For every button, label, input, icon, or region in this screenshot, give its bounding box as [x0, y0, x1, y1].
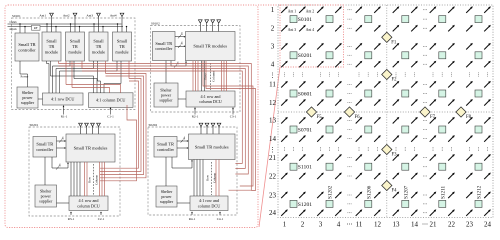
red bus line 4 [82, 71, 242, 163]
red column feed wire S0202 [218, 160, 220, 197]
svg-text:Small: Small [93, 39, 104, 44]
red dotted connector along top [258, 4, 280, 6]
svg-text:12: 12 [374, 221, 382, 229]
small TR module M2 [66, 32, 85, 61]
red column feed wire [221, 61, 223, 91]
svg-text:column DCU: column DCU [77, 203, 99, 208]
feed network node F4 [382, 180, 397, 193]
svg-text:4: 4 [181, 32, 183, 36]
antenna element 4 of S0201 [97, 123, 101, 134]
svg-text:TR: TR [96, 44, 102, 49]
bus width tick [59, 136, 64, 142]
bus width tick [56, 163, 61, 169]
R2-1 feed wire [194, 108, 196, 115]
row feed wire S0202 [202, 160, 204, 197]
C4-1 feed wire [219, 213, 221, 216]
antenna Ant4 [120, 13, 124, 32]
shelter power supplier PS2 [154, 83, 178, 107]
svg-text:S0601: S0601 [298, 91, 313, 97]
svg-text:supplier: supplier [160, 199, 174, 204]
small TR module M3 [89, 32, 108, 61]
svg-text:Ant1: Ant1 [39, 14, 46, 18]
svg-text:S0201: S0201 [30, 123, 39, 127]
svg-text:Column: Column [213, 172, 217, 183]
small TR module squares (6x6) [290, 16, 482, 208]
vertical ellipsis dot marks in omitted-row bands [284, 73, 488, 151]
feed network node F5 [306, 107, 322, 120]
small TR controller U2 [153, 32, 176, 61]
arrowhead S0202 a [187, 140, 189, 142]
red column feed wire S0201 [104, 162, 106, 196]
feed network node F8 [456, 107, 472, 120]
svg-text:Row: Row [206, 174, 210, 181]
comm input wire [8, 23, 17, 25]
svg-text:F5: F5 [317, 115, 323, 120]
arrowhead b [184, 45, 186, 47]
svg-text:TR: TR [72, 44, 78, 49]
4:1 column DCU [89, 93, 134, 108]
svg-text:Ant 1: Ant 1 [288, 10, 296, 14]
power wire S0102 [165, 61, 167, 83]
svg-text:Comm: Comm [9, 21, 16, 24]
row feed wire S0201 [79, 162, 81, 196]
C3-1 feed wire [232, 108, 234, 115]
red bus far right b [206, 61, 256, 191]
svg-text:R3-1: R3-1 [68, 217, 75, 221]
wire module M2 to row DCU [53, 61, 71, 93]
ctrl to modules wire a [175, 36, 184, 38]
wire module M1 to row DCU [47, 61, 50, 93]
power wire S0201 [44, 157, 46, 185]
svg-text:Row: Row [204, 73, 208, 80]
small TR modules block S0102 [186, 32, 236, 61]
row feed wire S0202 [196, 160, 198, 197]
red bus line 1 [59, 64, 252, 191]
ctrl loop wire [171, 61, 186, 66]
red bus line 3 [82, 69, 245, 169]
row feed wire S0202 [193, 160, 195, 197]
svg-text:4: 4 [181, 42, 183, 46]
svg-text:F6: F6 [355, 115, 361, 120]
red dotted enclosure of expanded sub-array view [5, 5, 258, 228]
red column feed wire [226, 61, 228, 91]
antenna element 4 of S0202 [217, 123, 221, 134]
antenna element 2 of S0102 [205, 20, 209, 32]
svg-text:11: 11 [269, 81, 276, 89]
svg-text:S0202: S0202 [149, 123, 158, 127]
svg-text:⋯: ⋯ [347, 222, 353, 228]
arrowhead S0201 c [67, 162, 69, 164]
svg-text:controller: controller [155, 46, 173, 51]
RF distribution box [32, 25, 41, 30]
svg-text:F3: F3 [392, 153, 398, 158]
arrowhead a [184, 36, 186, 38]
svg-text:14: 14 [411, 221, 419, 229]
svg-text:Row: Row [87, 176, 91, 183]
svg-text:1: 1 [271, 6, 275, 14]
4:1 row DCU [43, 93, 84, 105]
junction dot [102, 26, 103, 27]
red bus line 6 [100, 76, 144, 175]
red wire to column DCU b [72, 88, 110, 93]
svg-text:RF: RF [34, 26, 38, 30]
red stub module M3 [105, 61, 107, 74]
feed network node F1 [382, 32, 397, 45]
svg-text:S0101: S0101 [298, 17, 313, 23]
svg-text:3: 3 [319, 221, 323, 229]
svg-text:S0102: S0102 [151, 22, 160, 26]
svg-text:Small TR: Small TR [36, 142, 53, 147]
sub-array enclosure S0201 condensed view [29, 123, 120, 216]
svg-text:4:1 row DCU: 4:1 row DCU [51, 97, 75, 102]
junction dot [70, 23, 71, 24]
small TR controller U4 [154, 137, 177, 158]
junction dot [126, 26, 127, 27]
svg-text:S1212: S1212 [477, 185, 483, 199]
C4-1 arrow [219, 212, 221, 214]
antenna element 2 of S0202 [205, 123, 209, 134]
svg-text:Small TR: Small TR [157, 142, 174, 147]
svg-text:⋯: ⋯ [422, 222, 428, 228]
wire shelter to row DCU [38, 98, 43, 100]
feed network node F2 [382, 69, 397, 82]
antenna element 1 of S0102 [198, 20, 202, 32]
junction dot [46, 23, 47, 24]
svg-text:supplier: supplier [39, 199, 53, 204]
ctrl loop wire S0201 [52, 157, 68, 168]
red column feed wire [223, 61, 225, 91]
arrowhead c [185, 61, 187, 63]
red expansion line [259, 67, 280, 227]
R4-1 arrow [191, 212, 193, 214]
svg-text:1: 1 [283, 221, 287, 229]
wire bus to module [117, 24, 119, 32]
svg-text:22: 22 [448, 221, 456, 229]
antenna element 3 of S0102 [211, 20, 215, 32]
svg-text:S0101: S0101 [12, 14, 21, 18]
red bus line 5 [100, 74, 146, 178]
svg-text:13: 13 [269, 117, 277, 125]
svg-text:signals: signals [9, 28, 16, 31]
ctrl loop wire S0202 [172, 157, 192, 168]
antenna element 3 of S0202 [211, 123, 215, 134]
svg-text:Ant 4: Ant 4 [306, 28, 314, 32]
row feed wire S0201 [73, 162, 75, 196]
svg-text:12: 12 [269, 99, 277, 107]
feed network node F3 [382, 144, 397, 157]
svg-text:23: 23 [269, 191, 277, 199]
row feed wire S0201 [76, 162, 78, 196]
wire bus to controller [19, 24, 21, 33]
C1-1 arrow [110, 108, 112, 110]
red row feed wire [197, 61, 199, 91]
R3-1 feed wire [70, 213, 72, 216]
bus width tick [178, 42, 183, 48]
svg-text:TR: TR [119, 44, 125, 49]
svg-text:2: 2 [271, 25, 275, 33]
power wire controller to shelter [20, 61, 28, 87]
svg-text:module: module [68, 49, 81, 54]
svg-text:21: 21 [430, 221, 438, 229]
svg-text:module: module [92, 49, 105, 54]
antenna Ant3 [97, 13, 101, 32]
junction dot [55, 26, 56, 27]
arrowhead S0201 a [64, 140, 66, 142]
wire module M4 to column DCU [104, 61, 121, 93]
svg-text:R2-1: R2-1 [192, 115, 199, 119]
svg-text:S1207: S1207 [403, 185, 409, 199]
antenna Ant2 [73, 13, 77, 32]
power wire S0202 [165, 157, 167, 186]
antenna element slash marks (12x12 visible grid) [281, 6, 491, 216]
C1-1 feed wire [110, 108, 112, 115]
row feed wire S0201 [70, 162, 72, 196]
ctrl to modules wire b [175, 45, 184, 47]
svg-text:4: 4 [183, 136, 185, 140]
control bus 1 [16, 23, 122, 25]
red row feed wire [192, 61, 194, 91]
ctrl to modules wire S0202 b [177, 147, 187, 149]
red dotted sub-array marker [280, 5, 344, 67]
C3-1 arrow [232, 108, 234, 110]
svg-text:24: 24 [484, 221, 492, 229]
wire bus to controller 2 [24, 27, 26, 33]
wire bus to module [102, 27, 104, 32]
svg-text:13: 13 [393, 221, 401, 229]
red row feed wire [195, 61, 197, 91]
svg-text:4: 4 [62, 136, 64, 140]
antenna element 4 of S0102 [217, 20, 221, 32]
svg-text:22: 22 [269, 172, 277, 180]
svg-text:Small: Small [46, 39, 57, 44]
small TR module M4 [113, 32, 132, 61]
svg-text:S1101: S1101 [298, 165, 312, 171]
red column feed wire S0201 [99, 162, 101, 196]
antenna element 1 of S0201 [79, 123, 83, 134]
svg-text:Ant3: Ant3 [86, 14, 93, 18]
small TR controller U3 [33, 137, 57, 158]
row/column divider S0201 [92, 164, 94, 195]
svg-text:S1211: S1211 [440, 186, 446, 199]
svg-text:Small TR modules: Small TR modules [195, 144, 229, 149]
junction dot [19, 23, 20, 24]
antenna element 2 of S0201 [85, 123, 89, 134]
svg-text:21: 21 [269, 154, 277, 162]
svg-text:S1202: S1202 [328, 185, 334, 199]
svg-text:C3-1: C3-1 [230, 115, 237, 119]
svg-text:column DCU: column DCU [199, 99, 221, 104]
row feed wire [204, 61, 206, 91]
wire bus to module [93, 24, 95, 32]
svg-text:controller: controller [18, 47, 36, 52]
R3-1 arrow [70, 212, 72, 214]
red bus far right a [203, 61, 253, 186]
svg-text:Ant 3: Ant 3 [288, 28, 296, 32]
shelter to DCU wire S0202 [177, 202, 190, 204]
sub-array enclosure S0202 condensed view [148, 123, 237, 215]
row/column divider S0202 [211, 162, 213, 195]
red feed wire S0201 [84, 162, 86, 196]
arrowhead S0201 b [64, 147, 66, 149]
wire module M3 to column DCU [98, 61, 101, 93]
svg-text:4:1 column DCU: 4:1 column DCU [96, 98, 126, 103]
wire bus to module [79, 27, 81, 32]
svg-text:Ant 2: Ant 2 [306, 10, 314, 14]
small TR modules block S0201 [66, 134, 115, 162]
svg-text:4: 4 [271, 61, 275, 69]
red column feed wire S0202 [215, 160, 217, 197]
R4-1 feed wire [191, 213, 193, 216]
svg-text:Small: Small [70, 39, 81, 44]
red stub module M4 [128, 61, 130, 79]
signal input wire [8, 26, 17, 28]
junction dot [93, 23, 94, 24]
bus width tick [178, 32, 183, 38]
antenna element 3 of S0201 [91, 123, 95, 134]
sub-array enclosure S0102 condensed view [151, 22, 241, 112]
svg-text:Column: Column [94, 174, 98, 185]
shelter power supplier PS3 [35, 185, 57, 207]
red feed wire S0201 [86, 162, 88, 196]
row feed wire S0202 [199, 160, 201, 197]
small TR controller U1 [15, 33, 39, 61]
red stub module M2 [81, 61, 83, 69]
svg-text:24: 24 [269, 209, 277, 217]
red bus to S0201 [100, 105, 137, 181]
svg-text:Column: Column [212, 71, 216, 82]
svg-text:supplier: supplier [159, 98, 173, 103]
antenna element 1 of S0202 [199, 123, 203, 134]
array outline [278, 5, 493, 218]
antenna Ant1 [50, 13, 54, 32]
svg-text:TR: TR [49, 44, 55, 49]
arrowhead S0202 c [191, 160, 193, 162]
red bus line 7 [100, 79, 141, 172]
svg-text:Power: Power [21, 75, 29, 79]
C2-1 feed wire [100, 213, 102, 216]
svg-text:Ant2: Ant2 [63, 14, 70, 18]
shelter to DCU wire S0102 [178, 98, 186, 100]
shelter power supplier PS4 [156, 186, 177, 207]
svg-text:S1206: S1206 [366, 185, 372, 199]
feed network node F6 [344, 107, 360, 120]
R1-1 feed wire [63, 106, 65, 115]
4:1 row and column DCU U4d [190, 196, 228, 211]
control bus 2 [16, 26, 123, 28]
ctrl to modules wire S0201 a [57, 140, 65, 142]
svg-text:Small TR modules: Small TR modules [193, 44, 227, 49]
red stub b [71, 61, 73, 88]
svg-text:2: 2 [301, 221, 305, 229]
svg-text:C4-1: C4-1 [217, 217, 224, 221]
C2-1 arrow [100, 212, 102, 214]
svg-text:4: 4 [337, 221, 341, 229]
svg-text:14: 14 [269, 135, 277, 143]
svg-text:controller: controller [157, 147, 175, 152]
svg-text:3: 3 [271, 43, 275, 51]
svg-text:column DCU: column DCU [198, 203, 220, 208]
bus width tick [174, 61, 179, 67]
svg-text:module: module [115, 49, 128, 54]
svg-text:S0701: S0701 [298, 127, 313, 133]
svg-text:F4: F4 [392, 189, 398, 194]
R1-1 arrow [63, 106, 65, 108]
svg-text:S1201: S1201 [298, 202, 313, 208]
ctrl to modules wire S0202 a [177, 140, 187, 142]
wire module M3 to row DCU [56, 61, 94, 93]
wire module M2 to column DCU [74, 61, 97, 93]
4:1 row and column DCU U3d [69, 196, 108, 211]
svg-text:F2: F2 [392, 78, 398, 83]
svg-text:module: module [45, 49, 58, 54]
row/column divider [210, 63, 212, 90]
shelter to DCU wire S0201 [57, 202, 70, 204]
junction dot [117, 23, 118, 24]
red bus line 2 [59, 66, 249, 174]
wire bus to module [70, 24, 72, 32]
arrowhead S0202 b [187, 147, 189, 149]
wire bus to module [46, 24, 48, 32]
svg-text:11: 11 [356, 221, 363, 229]
red wire to column DCU a [66, 85, 121, 93]
svg-text:Small TR modules: Small TR modules [74, 146, 108, 151]
red stub a [65, 61, 67, 85]
svg-text:C1-1: C1-1 [107, 115, 114, 119]
array centre row divider [278, 111, 493, 113]
small TR modules block S0202 [189, 134, 236, 160]
red column feed wire S0201 [101, 162, 103, 196]
red stub module M1 [58, 61, 60, 64]
svg-text:F1: F1 [391, 40, 397, 45]
svg-text:Small: Small [117, 39, 128, 44]
junction dot [79, 26, 80, 27]
svg-text:F8: F8 [466, 115, 472, 120]
bus width tick [181, 136, 186, 142]
wire module M1 to column DCU [51, 61, 94, 93]
horizontal ellipsis dot marks in omitted-column bands [348, 9, 427, 213]
small TR module M1 [42, 32, 61, 61]
R2-1 arrow [194, 108, 196, 110]
ctrl to modules wire S0201 b [57, 147, 65, 149]
wire bus to module [55, 27, 57, 32]
4:1 row and column DCU U2d [186, 91, 235, 107]
row feed wire [201, 61, 203, 91]
svg-text:controller: controller [36, 147, 54, 152]
svg-text:4: 4 [59, 163, 61, 167]
junction dot [24, 26, 25, 27]
svg-text:supplier: supplier [21, 100, 35, 105]
svg-text:S0201: S0201 [298, 53, 313, 59]
wire module M4 to row DCU [60, 61, 118, 93]
svg-text:Small TR: Small TR [155, 41, 172, 46]
svg-text:R1-1: R1-1 [61, 115, 68, 119]
wire bus to module [126, 27, 128, 32]
svg-text:⋮: ⋮ [270, 73, 276, 79]
shelter power supplier PS1 [17, 87, 38, 108]
svg-text:Small TR: Small TR [18, 42, 35, 47]
svg-text:F7: F7 [430, 115, 436, 120]
svg-text:Ant4: Ant4 [110, 14, 117, 18]
svg-text:R4-1: R4-1 [189, 217, 196, 221]
red bus line 8 [100, 81, 139, 168]
svg-text:23: 23 [466, 221, 474, 229]
svg-text:⋮: ⋮ [270, 148, 276, 154]
sub-array enclosure S0101 detailed view [12, 14, 136, 109]
array centre column divider [386, 5, 388, 218]
feed network node F7 [420, 107, 436, 120]
svg-text:C2-1: C2-1 [98, 217, 105, 221]
